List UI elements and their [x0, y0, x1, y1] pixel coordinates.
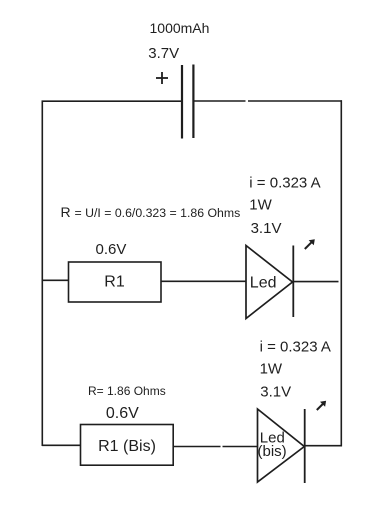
- battery B1 plates: [182, 65, 193, 139]
- svg-text:Led: Led: [250, 274, 277, 291]
- svg-text:1W: 1W: [260, 361, 283, 378]
- LED D2 emission arrow: [317, 401, 326, 410]
- wire top-left horizontal: [42, 100, 182, 102]
- wire left vertical bus: [41, 101, 43, 447]
- wire right vertical bus: [340, 100, 342, 446]
- LED D1 emission arrow: [305, 239, 315, 249]
- svg-text:0.6V: 0.6V: [96, 241, 127, 258]
- svg-text:1000mAh: 1000mAh: [150, 20, 210, 36]
- wire from left bus to R1: [42, 279, 69, 281]
- wire top-right horizontal segment b: [248, 100, 342, 102]
- svg-text:R= 1.86 Ohms: R= 1.86 Ohms: [88, 384, 166, 398]
- wire from left bus to R1 (Bis): [42, 444, 81, 446]
- svg-text:i = 0.323 A: i = 0.323 A: [249, 174, 320, 191]
- LED D2 cathode bar: [304, 409, 306, 483]
- wire top-right horizontal segment a: [194, 100, 245, 102]
- wire from R1 (Bis) to Led (bis) segment a: [173, 446, 220, 448]
- resistor R1 (Bis): [81, 425, 174, 466]
- wire from Led (bis) cathode to right bus: [306, 445, 343, 447]
- wire from R1 to Led: [161, 280, 246, 282]
- wire from R1 (Bis) to Led (bis) segment b: [223, 446, 258, 448]
- LED D2 triangle: [258, 409, 305, 482]
- battery plus polarity sign: [156, 72, 168, 84]
- wire from Led cathode to right bus: [294, 281, 339, 283]
- svg-text:R = U/I = 0.6/0.323 = 1.86 Ohm: R = U/I = 0.6/0.323 = 1.86 Ohms: [61, 204, 241, 220]
- svg-text:0.6V: 0.6V: [106, 405, 139, 422]
- svg-text:3.1V: 3.1V: [260, 384, 291, 401]
- LED D1 triangle: [246, 246, 293, 319]
- svg-text:1W: 1W: [249, 196, 272, 213]
- resistor R1: [69, 262, 162, 302]
- svg-text:R1 (Bis): R1 (Bis): [98, 438, 156, 455]
- LED D1 cathode bar: [292, 246, 294, 318]
- svg-text:i = 0.323 A: i = 0.323 A: [260, 339, 331, 356]
- svg-text:3.1V: 3.1V: [251, 220, 282, 237]
- svg-text:3.7V: 3.7V: [148, 45, 179, 62]
- svg-text:R1: R1: [104, 274, 125, 291]
- svg-text:(bis): (bis): [258, 443, 287, 460]
